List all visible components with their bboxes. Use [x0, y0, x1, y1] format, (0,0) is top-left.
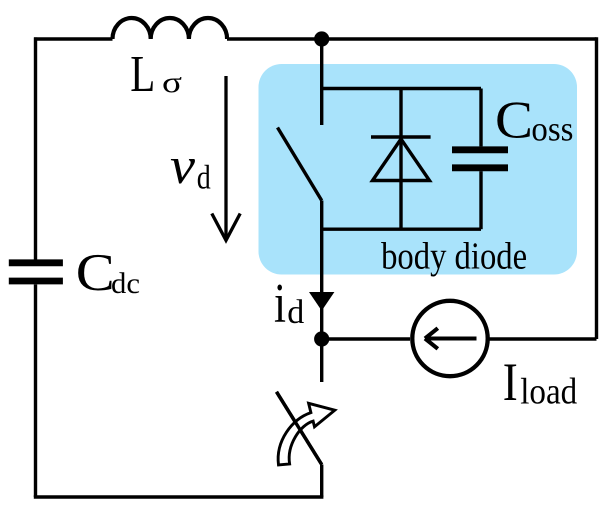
svg-text:C: C	[76, 244, 115, 302]
svg-text:d: d	[287, 294, 304, 331]
svg-text:I: I	[503, 352, 518, 412]
svg-text:oss: oss	[531, 110, 573, 149]
svg-text:i: i	[274, 273, 286, 335]
svg-text:C: C	[495, 92, 533, 150]
svg-text:v: v	[170, 138, 196, 195]
svg-text:dc: dc	[111, 267, 140, 300]
svg-text:L: L	[130, 46, 155, 103]
svg-text:body diode: body diode	[381, 235, 527, 277]
svg-text:load: load	[520, 372, 577, 413]
svg-text:σ: σ	[162, 66, 182, 99]
svg-text:d: d	[197, 160, 211, 197]
